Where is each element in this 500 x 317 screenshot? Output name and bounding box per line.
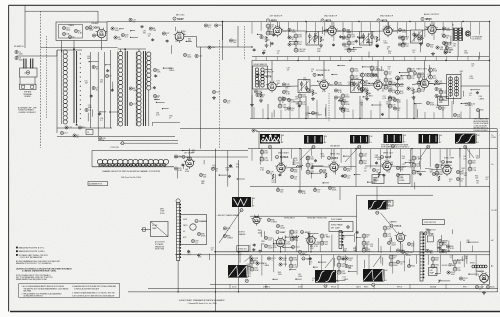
component chain 32 — [337, 256, 341, 260]
wire bottom band 2 — [175, 254, 490, 256]
screen bypass C40 — [442, 27, 445, 30]
tuner bottom components — [60, 131, 63, 134]
tube V15 1st video amp — [186, 159, 194, 167]
tube V12 vert osc — [330, 163, 338, 171]
scope waveform photo W3 (video) — [350, 135, 369, 144]
horiz out cage box — [427, 236, 433, 242]
wire V14 drop — [446, 149, 448, 166]
dashed vertical x219 — [219, 40, 221, 149]
component chain 19 — [260, 150, 264, 154]
ratio det caps — [468, 102, 471, 105]
tube V13 vert out — [383, 162, 391, 170]
ground V6 cathode — [420, 42, 422, 44]
AGC resistor R25 — [342, 43, 345, 46]
focus comps — [396, 249, 399, 252]
resistor R4 — [129, 87, 132, 90]
stability coil — [292, 236, 299, 238]
bottom B+ bus wire — [128, 291, 498, 293]
scope waveform photo W5 (horiz) — [419, 134, 439, 144]
comp x346 — [345, 257, 348, 260]
capacitor C23 — [183, 53, 186, 56]
wire grid drops video band — [251, 149, 253, 161]
grid capacitor C39 — [414, 34, 417, 37]
tube V6 AUDIO OUTPUT 4BQ5 — [428, 25, 436, 33]
wire tuner vertical d — [110, 50, 112, 128]
cathode res R32 — [260, 92, 262, 97]
antenna terminal box — [20, 84, 37, 89]
bypass C50 — [388, 96, 391, 99]
component chain 4 — [384, 71, 388, 75]
sync transformer T8 — [339, 231, 342, 249]
tube V4 2ND VIDEO IF 4BZ6 — [328, 27, 336, 35]
IF transformer T3 — [411, 30, 423, 43]
junction comp x217 — [212, 90, 215, 93]
wire T4 drop — [457, 41, 459, 57]
scope waveform photo W4 (blanking) — [384, 134, 403, 143]
wire horiz section top — [250, 215, 357, 217]
grid cap C42 — [254, 90, 257, 93]
component values row A — [355, 40, 357, 41]
switch contact ticks — [98, 164, 100, 167]
capacitor C1B — [15, 56, 18, 59]
pointer line from W2 — [300, 147, 313, 161]
wire vertical x227 — [227, 151, 229, 187]
bank bottom comps — [65, 126, 68, 129]
wire row-B top bus — [252, 60, 489, 62]
capacitor C14 in shield — [62, 26, 65, 29]
rect comps below — [475, 285, 478, 288]
component chain 31 — [289, 257, 293, 261]
wire heater bus — [210, 283, 490, 285]
screen bypass C37 — [398, 28, 401, 31]
coil L3 — [26, 71, 30, 75]
component chain 24 — [468, 160, 472, 164]
4.5mc trap box — [151, 222, 169, 237]
wire mixer out — [197, 46, 253, 48]
wire V2 to IF — [184, 36, 197, 38]
ground arrow left rail — [251, 103, 253, 105]
tube V10 RATIO DET 6AL5 — [420, 79, 428, 87]
wire right rail 2 — [496, 129, 498, 292]
sound IF transformer T6 — [351, 80, 363, 93]
component values horiz band — [274, 243, 285, 245]
pointer from W7 — [219, 211, 241, 244]
channel selector switch wafer — [97, 159, 102, 164]
wire V11 drop — [280, 149, 282, 164]
component chain 11 — [278, 97, 282, 101]
V17 comps — [264, 236, 267, 239]
component values video band — [311, 172, 321, 174]
wire grid risers row B — [253, 107, 255, 119]
wire sync band — [250, 186, 490, 188]
arrow top of core L4 — [73, 49, 75, 51]
arrow top of core L5 — [124, 49, 126, 51]
note bullet 2 — [16, 250, 18, 252]
wire row-A bottom bus — [252, 56, 489, 58]
component chain 6 — [407, 68, 411, 72]
schematic frame border (top) — [9, 4, 500, 6]
wire row C stage links — [285, 167, 302, 168]
capacitor C8 — [85, 108, 88, 111]
dashed rail x329 — [328, 93, 330, 122]
power comps — [447, 271, 450, 274]
wire V12 drop — [333, 149, 335, 163]
V18 label — [300, 230, 303, 233]
IF transformer T2 — [360, 32, 373, 46]
pointer W11 — [373, 256, 381, 267]
component chain 29 — [439, 242, 443, 246]
plate res R39 — [388, 89, 391, 92]
wire V5 output — [392, 30, 397, 32]
wire balun top — [17, 55, 37, 57]
tube V7 SOUND IF 4DT6 — [268, 82, 276, 90]
bypass C21 — [195, 54, 198, 57]
decoupling C32 — [288, 36, 291, 39]
tube V20 horiz out — [396, 233, 404, 241]
video det comps — [339, 98, 342, 101]
component chain 20 — [306, 156, 310, 160]
output tube extras — [426, 43, 429, 46]
component chain 16 — [347, 34, 351, 38]
scope waveform photo W1 (video IF) — [260, 134, 280, 144]
wire right rail — [489, 22, 491, 285]
cathode res R38 — [366, 91, 368, 96]
dashed chassis divider — [40, 11, 42, 148]
height control box — [372, 175, 384, 184]
component chain 23 — [435, 164, 439, 168]
tube V11 video output — [277, 164, 285, 172]
component chain 2 — [361, 73, 365, 77]
V15 comps — [174, 155, 177, 158]
wire tuner bottom drop — [56, 128, 58, 133]
core bar of L5 — [124, 51, 126, 126]
audio takeoff — [438, 106, 441, 109]
grid cap C48 — [360, 88, 363, 91]
wire W8 top link — [376, 187, 378, 201]
vert out comps row — [250, 257, 253, 260]
ground V4 cathode — [320, 44, 322, 46]
pointer line from W6 — [465, 147, 474, 159]
screen comp C43 — [282, 83, 285, 86]
capacitor C1A — [15, 50, 18, 53]
comp above bank2 — [121, 34, 124, 37]
tube V9 2ND SOUND IF 4BZ6 — [374, 81, 382, 89]
shield comps extra — [85, 26, 88, 29]
component chain 17 — [401, 36, 405, 40]
wire V13 drop — [386, 149, 388, 162]
wire left top bus — [25, 10, 98, 12]
wire ratio det out — [461, 85, 490, 87]
wire V4 plate to bus — [331, 22, 333, 27]
mixer grid comp — [98, 137, 101, 140]
component chain 35 — [453, 260, 457, 264]
tube V18 horiz osc — [307, 236, 315, 244]
core bar of L4 — [73, 51, 75, 123]
arrow bottom of core L4 — [75, 123, 77, 125]
component chain 5 — [396, 76, 400, 80]
fine tuning coil L7 — [147, 52, 151, 56]
resistor R3 — [92, 65, 95, 68]
component values tuner mid — [99, 112, 101, 113]
wire tuner vertical c — [103, 52, 105, 128]
row C comps near V13 — [372, 168, 375, 171]
tube V22 rectifier — [480, 274, 489, 283]
grid resistor R11 — [215, 24, 218, 27]
RF shield box — [56, 22, 107, 41]
wire V4 output — [336, 30, 341, 32]
AGC resistor R28 — [398, 43, 401, 46]
component chain 15 — [294, 34, 298, 38]
wire shield to banks — [61, 41, 63, 53]
capacitor C17 top — [129, 18, 132, 21]
tuner exit leads — [98, 140, 178, 142]
tube V3 1ST VIDEO IF 4BZ6 — [273, 27, 281, 35]
tuner bank2 top wires — [118, 48, 146, 50]
capacitor C11 — [153, 94, 156, 97]
wire vertical x215 — [215, 149, 217, 312]
safety notes table — [19, 284, 120, 298]
IF transformer T1 — [306, 32, 319, 46]
ratio detector transformer T7 — [447, 75, 462, 99]
switch contact dots column — [80, 53, 81, 54]
vert out label2 — [302, 257, 305, 260]
wire tuner bank1 top — [57, 49, 82, 51]
tube V17a AFC — [253, 216, 260, 223]
scope waveform photo W2 (sync) — [304, 135, 323, 144]
wire kine drop — [177, 261, 179, 292]
component chain 18 — [444, 42, 448, 46]
wire sync trailing drops — [277, 187, 279, 191]
AGC keying comps — [287, 98, 290, 101]
ion trap magnet — [429, 268, 438, 276]
grid cap C51 — [407, 87, 410, 90]
wire antenna leads — [19, 77, 21, 84]
screen comp C52 — [435, 80, 438, 83]
component chain 1 — [350, 68, 354, 72]
plate res R42 — [435, 87, 438, 90]
comp pair mid — [279, 257, 282, 260]
oscillator coil bank L6 — [137, 51, 141, 55]
switch base line — [92, 166, 174, 168]
wire stub y100b — [359, 96, 361, 119]
wire V9 out — [382, 84, 386, 86]
wire V5 plate to bus — [387, 22, 389, 27]
balun coil L1 — [23, 59, 25, 69]
component chain 27 — [362, 234, 366, 238]
wire V6 plate to bus — [431, 22, 433, 26]
component chain 7 — [417, 74, 421, 78]
wire osc line — [222, 22, 224, 61]
wire row A stage links — [282, 30, 306, 32]
component chain 8 — [429, 68, 433, 72]
row C comps near V12 — [319, 169, 322, 172]
component chain 30 — [250, 260, 254, 264]
resistor R2 in shield — [74, 29, 77, 32]
volume control R30 — [445, 46, 448, 49]
wire V3 output — [282, 30, 287, 32]
hold control — [298, 250, 301, 253]
speaker voice coil — [465, 31, 470, 36]
sound output transformer T4 — [453, 28, 455, 42]
screen bypass C31 — [288, 28, 291, 31]
wire horiz section frame — [356, 195, 358, 252]
wire V10 out — [429, 83, 433, 85]
bottom page rule — [10, 311, 500, 313]
heater stubs — [229, 284, 231, 288]
ground V9 — [366, 97, 368, 99]
wire vertical x222 — [222, 22, 224, 41]
component chain 28 — [383, 226, 387, 230]
comp cluster x395 — [393, 98, 396, 101]
coupling cap C20 — [208, 46, 211, 49]
component chain 21 — [359, 153, 363, 157]
wire video band feed — [92, 150, 248, 152]
component chain 33 — [389, 255, 393, 259]
pointer W9 — [245, 255, 252, 262]
label horiz mult — [276, 230, 279, 233]
wire V10 plate drop — [424, 61, 426, 80]
component chain 12 — [341, 94, 345, 98]
boost label — [252, 129, 255, 132]
scope waveform photo W11 (sweep) — [363, 269, 384, 282]
scope waveform photo W6 (sawtooth) — [455, 134, 476, 144]
wire L7 lower — [148, 90, 150, 126]
wire V7 plate drop — [271, 61, 273, 83]
junction dots — [251, 46, 252, 47]
bottom bus wire — [148, 288, 498, 290]
wire boost bus — [256, 131, 497, 133]
plate res R33 — [282, 90, 285, 93]
capacitor C10 — [129, 102, 132, 105]
pointer line from W3 — [345, 147, 359, 163]
tube V14 sync sep — [443, 166, 451, 174]
cathode res R35 — [312, 91, 314, 96]
schematic frame border (left) — [8, 5, 10, 311]
RF coil bank L4 (oscillator section) — [63, 50, 67, 54]
grid capacitor C30 — [260, 35, 263, 38]
dashed shield line — [46, 36, 48, 118]
tuner inner divider — [153, 121, 181, 123]
component values lower left — [239, 254, 241, 263]
cathode resistor R29 — [420, 36, 422, 41]
wire V8 plate drop — [323, 61, 325, 81]
component chain 3 — [370, 66, 374, 70]
sound takeoff transformer — [253, 66, 268, 89]
flyback bottom comps — [426, 249, 429, 252]
balun enclosure box — [20, 68, 38, 77]
contrast pot — [311, 111, 314, 114]
tuner bottom bus — [57, 136, 175, 138]
ground V7 — [260, 99, 262, 101]
wire V15 plate — [189, 149, 191, 159]
scope waveform photo W10 (vert out) — [315, 270, 336, 283]
flyback transformer T9 — [420, 232, 423, 281]
W8 scale box — [387, 200, 393, 206]
AFC comps — [267, 218, 270, 221]
tube V16 kine DU4GA — [195, 219, 198, 222]
horiz output box — [237, 246, 249, 252]
component chain 22 — [412, 156, 416, 160]
wire top grid bus — [196, 21, 489, 23]
deemphasis R41 — [453, 113, 456, 116]
left row B components — [256, 73, 259, 76]
horiz phase box — [329, 222, 353, 232]
sound IF transformer T5 — [298, 80, 310, 93]
balun coil L2 — [30, 59, 32, 69]
capacitor C7 — [92, 86, 95, 89]
wire V3 plate to bus — [277, 22, 279, 27]
scope waveform photo W7 (vert drive) — [232, 197, 251, 207]
wire left rail of IF strip — [251, 61, 253, 119]
grid capacitor C33 — [314, 35, 317, 38]
wire grid drops bottom band — [249, 255, 251, 275]
grid capacitor C36 — [370, 35, 373, 38]
capacitor C25 — [223, 99, 226, 102]
wire row C bus drops — [299, 149, 301, 187]
osc injection cap C19 — [204, 24, 207, 27]
decoupling C35 — [342, 36, 345, 39]
wire top link y47 — [41, 47, 118, 49]
kine inset box — [181, 215, 207, 245]
ground V10 — [413, 96, 415, 98]
wire antenna to tuner — [36, 55, 57, 57]
ground V8 — [312, 97, 314, 99]
note bullet 1 — [16, 247, 18, 249]
misc box right — [438, 97, 449, 106]
bypass C47 — [334, 96, 337, 99]
screen comp C49 — [388, 81, 391, 84]
note bullet 3 — [16, 254, 18, 256]
screen comp C46 — [334, 81, 337, 84]
wire V7 out — [276, 86, 280, 88]
wire row B stage links — [276, 85, 298, 88]
trap connector — [141, 229, 151, 231]
wire W1 frame — [258, 132, 260, 149]
component chain 25 — [290, 230, 294, 234]
wire tuner vertical b — [97, 52, 99, 128]
component chain 26 — [320, 234, 324, 238]
mixer coil bank L5 — [119, 51, 123, 55]
kine socket bar — [177, 203, 180, 261]
cathode resistor R26 — [376, 37, 378, 42]
decoupling C38 — [398, 36, 401, 39]
plate res R36 — [334, 89, 337, 92]
core bar of L6 — [142, 51, 144, 126]
kine socket top circle — [176, 199, 180, 203]
wire vertical x200 — [200, 47, 202, 149]
wire grid drops row A — [251, 22, 253, 34]
cathode resistor R20 — [265, 37, 267, 42]
wire video band top — [248, 148, 497, 150]
wire bottom band top — [214, 251, 490, 253]
ground V5 cathode — [376, 44, 378, 46]
tube V2 MIXER 5GS7 — [175, 32, 184, 41]
kine pin resistors — [197, 232, 200, 235]
grid cap C45 — [306, 88, 309, 91]
tube V5 3RD VIDEO IF 4BZ6 — [384, 27, 392, 35]
component values bottom band — [461, 256, 463, 261]
wire switch left — [91, 151, 93, 167]
wire vertical x238 — [238, 160, 240, 292]
component values video left band — [219, 174, 227, 176]
wire top bus segment — [107, 21, 196, 23]
component chain 9 — [439, 90, 443, 94]
wire V8 out — [328, 84, 332, 86]
screen bypass C34 — [342, 28, 345, 31]
AGC resistor R31 — [442, 41, 445, 44]
peaking coil L20 — [296, 165, 303, 167]
pointer W10 — [325, 258, 333, 268]
